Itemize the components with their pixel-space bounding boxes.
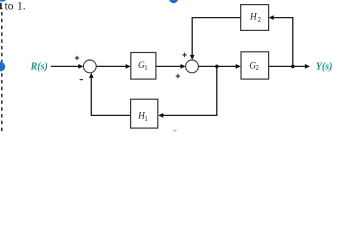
junction node dot (tap to H2) [291,65,295,69]
selection dashed border left [1,12,3,132]
wire up to S1 (vertical) [90,77,92,116]
arrowhead into S1 [78,64,83,69]
wire G1 to summing junction S2 [156,65,182,67]
arrowhead into H1 [158,113,163,118]
summing junction S2 [186,60,199,73]
arrowhead into H2 [269,15,274,20]
block G1 [131,53,156,80]
block H1 [131,99,158,128]
wire G2 to output Y(s) [269,65,306,67]
arrowhead into Y(s) [305,64,310,69]
svg-text:2: 2 [256,65,260,72]
wire H1 output left (horizontal) [91,114,130,116]
junction node dot (tap to H1) [215,65,219,69]
plus sign at S2 top input [182,53,186,57]
wire to H2 right side (horizontal) [273,17,293,19]
cut-off text fragment top-left [0,3,3,9]
arrowhead into S2 [181,64,186,69]
wire tap up to H2 (vertical) [292,18,294,67]
wire H2 output left (horizontal) [192,17,241,19]
wire down to S2 (vertical) [191,18,193,56]
svg-text:Y(s): Y(s) [316,62,333,73]
wire S1 to G1 [96,65,126,67]
plus sign at S1 input [75,56,79,60]
block H2 [241,5,269,31]
arrowhead into G2 [236,64,241,69]
selection handle top-left corner [0,0,8,2]
wire tap down to H1 (vertical) [216,66,218,115]
wire S2 to G2 [198,65,236,67]
faint cut-off mark bottom [173,130,177,132]
arrowhead into G1 [126,64,131,69]
svg-text:R(s): R(s) [30,62,48,73]
svg-text:1: 1 [144,116,147,123]
wire to H1 right side (horizontal) [163,114,218,116]
wire R(s) to summing junction S1 [51,65,79,67]
selection handle top-center [169,0,178,3]
arrowhead into S2 top [190,55,195,60]
minus sign at S1 feedback input [80,79,83,81]
svg-text:1: 1 [144,65,147,72]
arrowhead into S1 bottom [89,73,94,78]
summing junction S1 [83,60,96,73]
block G2 [241,52,269,79]
selection handle left-center [0,62,5,72]
plus sign at S2 left input [176,74,180,78]
svg-text:2: 2 [258,17,262,24]
